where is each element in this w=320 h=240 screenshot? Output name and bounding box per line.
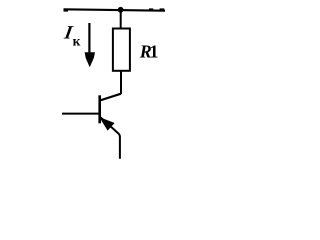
wire: top supply rail	[64, 8, 166, 11]
resistor R1 body	[113, 29, 130, 71]
current arrow Ik: head	[85, 52, 95, 67]
wire: emitter vertical lead	[119, 134, 120, 159]
wire: base lead	[62, 113, 101, 115]
current arrow Ik: shaft	[88, 23, 90, 56]
transistor collector diagonal	[100, 94, 121, 101]
wire: resistor bottom to collector	[120, 71, 122, 94]
transistor base bar	[98, 95, 101, 123]
svg-text:R1: R1	[139, 42, 159, 62]
junction dot	[118, 7, 124, 13]
emitter arrowhead	[99, 117, 114, 131]
transistor emitter diagonal	[100, 117, 118, 133]
wire: dot to resistor top	[120, 10, 122, 29]
svg-text:к: к	[73, 34, 81, 49]
